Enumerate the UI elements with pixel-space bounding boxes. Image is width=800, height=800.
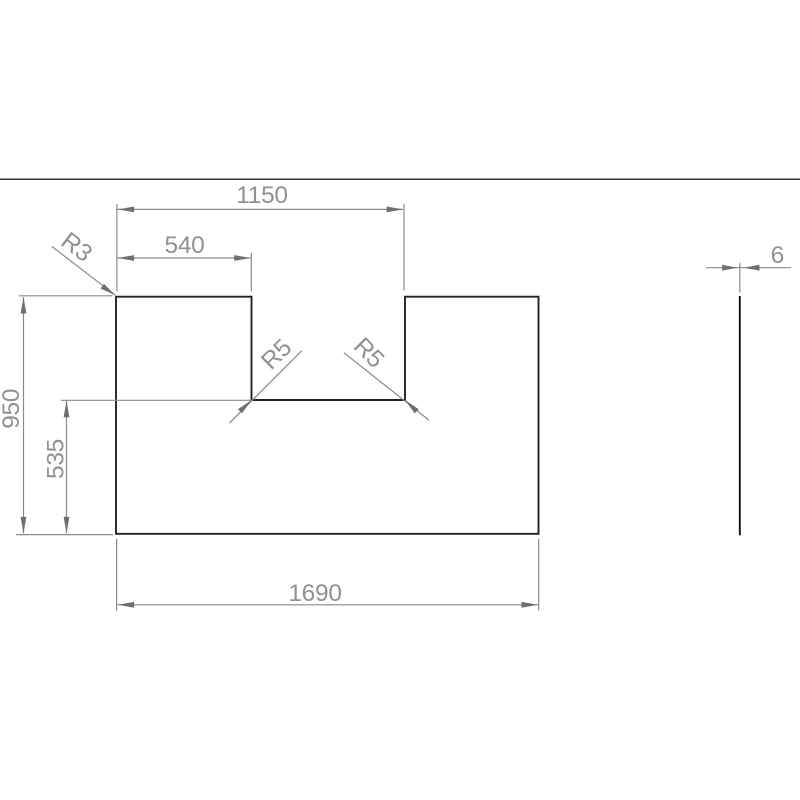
dim 1150: dimension line xyxy=(118,208,404,210)
dim 1690: left arrow xyxy=(118,602,135,608)
dim 1690: right extension line xyxy=(538,539,540,611)
dim 950: dimension line xyxy=(23,297,25,533)
top separator rule xyxy=(0,178,800,180)
dim 540: left arrow xyxy=(118,255,135,261)
dim 6: dimension line xyxy=(706,267,791,269)
dim 1690: dimension line xyxy=(118,604,538,606)
dim 1690: left extension line xyxy=(116,539,118,611)
svg-text:1150: 1150 xyxy=(236,182,288,209)
dim 950: bottom extension line xyxy=(16,534,113,536)
dim 540: dimension line xyxy=(118,257,251,259)
dim 1150: right arrow xyxy=(387,207,404,213)
svg-text:950: 950 xyxy=(0,389,25,429)
dim 1150: left arrow xyxy=(118,207,135,213)
dim 6: right arrow (points left) xyxy=(744,265,760,271)
leader R5 right: line xyxy=(344,353,429,420)
dim 535: top extension line (to notch corner) xyxy=(61,399,253,401)
dim 535: dimension line xyxy=(66,401,68,534)
leader R5 left: arrow xyxy=(238,400,252,413)
leader R3: arrow xyxy=(101,284,116,295)
dim 535: bottom arrow xyxy=(64,517,70,534)
svg-text:6: 6 xyxy=(771,242,785,269)
dim 540: right arrow xyxy=(234,255,251,261)
dim 540: right extension line xyxy=(250,253,252,292)
dim 1150: right extension line xyxy=(403,204,405,291)
dim 1150: left extension line (shared with 540) xyxy=(116,204,118,292)
dim 950: top arrow xyxy=(21,297,27,314)
dim 6: extension tick xyxy=(739,263,741,293)
svg-text:535: 535 xyxy=(43,439,70,479)
leader R5 right: arrow xyxy=(405,400,419,413)
dim 535: top arrow xyxy=(64,401,70,418)
dim 950: bottom arrow xyxy=(21,517,27,534)
svg-text:540: 540 xyxy=(165,232,205,259)
side view edge line (6mm thickness) xyxy=(739,296,741,535)
dim 1690: right arrow xyxy=(521,602,538,608)
dim 950: top extension line xyxy=(19,295,113,297)
panel outline (front view) xyxy=(116,297,539,534)
leader R5 left: line xyxy=(229,351,302,424)
leader R3: line xyxy=(52,246,116,295)
svg-text:1690: 1690 xyxy=(288,580,341,607)
dim 6: left arrow (points right) xyxy=(722,265,738,271)
